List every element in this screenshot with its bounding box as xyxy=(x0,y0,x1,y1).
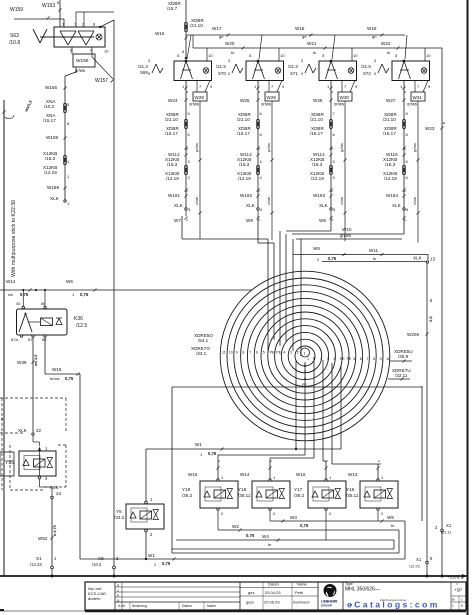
svg-text:Petri: Petri xyxy=(295,590,303,595)
svg-text:gn: gn xyxy=(372,34,376,39)
svg-text:W23: W23 xyxy=(425,126,435,131)
svg-text:W30: W30 xyxy=(340,95,350,100)
svg-text:10: 10 xyxy=(426,53,431,58)
svg-text:W21: W21 xyxy=(307,41,317,46)
svg-text:9: 9 xyxy=(236,351,238,355)
svg-text:X1: X1 xyxy=(36,556,42,561)
svg-text:/15.17: /15.17 xyxy=(383,131,396,136)
svg-text:gepr.: gepr. xyxy=(246,600,255,605)
svg-text:gn/ws: gn/ws xyxy=(195,143,199,152)
svg-text:XLK: XLK xyxy=(174,203,184,208)
svg-text:gn/ws: gn/ws xyxy=(340,233,351,238)
svg-text:3: 3 xyxy=(327,357,329,361)
svg-text:or/ws: or/ws xyxy=(195,197,199,205)
svg-text:XLK: XLK xyxy=(392,203,402,208)
svg-text:24: 24 xyxy=(56,491,62,496)
svg-text:W10: W10 xyxy=(342,227,352,232)
svg-text:9: 9 xyxy=(301,72,303,76)
svg-text:/21.11: /21.11 xyxy=(441,531,451,535)
svg-text:or/ws: or/ws xyxy=(267,197,271,205)
svg-text:Name: Name xyxy=(207,604,216,608)
svg-text:Bl.: Bl. xyxy=(452,598,456,602)
svg-text:W7: W7 xyxy=(174,218,181,223)
svg-text:br/ws: br/ws xyxy=(50,376,60,381)
svg-text:9: 9 xyxy=(380,357,382,361)
svg-text:/32.11: /32.11 xyxy=(395,373,408,378)
svg-text:Y55: Y55 xyxy=(5,460,14,466)
svg-text:GROUP: GROUP xyxy=(321,604,332,608)
svg-text:20.06.03: 20.06.03 xyxy=(264,600,280,605)
svg-text:8: 8 xyxy=(242,351,244,355)
svg-text:86: 86 xyxy=(41,301,46,306)
svg-text:W19: W19 xyxy=(367,26,377,31)
svg-text:X1: X1 xyxy=(446,523,452,528)
svg-text:/12.5: /12.5 xyxy=(76,323,87,329)
svg-text:/10.8: /10.8 xyxy=(9,40,20,46)
svg-text:11: 11 xyxy=(222,351,226,355)
svg-text:W6: W6 xyxy=(313,246,320,251)
svg-text:W2: W2 xyxy=(232,524,239,529)
svg-text:d: d xyxy=(117,584,119,588)
svg-text:XLK: XLK xyxy=(319,203,329,208)
svg-text:/35.2: /35.2 xyxy=(182,493,193,498)
svg-text:/21.5: /21.5 xyxy=(216,64,226,69)
svg-text:PE: PE xyxy=(276,351,281,355)
svg-text:3: 3 xyxy=(185,148,189,150)
svg-text:7: 7 xyxy=(249,351,251,355)
svg-text:/12.19: /12.19 xyxy=(44,170,57,175)
svg-text:/32.2: /32.2 xyxy=(114,515,125,520)
svg-text:/10.2: /10.2 xyxy=(92,562,102,567)
svg-text:W9: W9 xyxy=(246,218,253,223)
svg-text:W14: W14 xyxy=(6,279,16,284)
svg-text:gr/ws: gr/ws xyxy=(75,68,85,73)
svg-text:W3: W3 xyxy=(290,515,297,520)
svg-text:eCatalogs:com: eCatalogs:com xyxy=(347,600,440,610)
svg-text:W8: W8 xyxy=(319,218,326,223)
svg-text:ws: ws xyxy=(8,292,13,297)
svg-text:0,75: 0,75 xyxy=(328,256,337,261)
svg-text:Datum: Datum xyxy=(182,604,192,608)
svg-text:13: 13 xyxy=(430,257,436,262)
svg-text:W16: W16 xyxy=(155,31,165,36)
svg-text:or/ws: or/ws xyxy=(334,102,344,107)
svg-text:or/ws: or/ws xyxy=(340,197,344,205)
svg-text:9: 9 xyxy=(148,72,150,76)
svg-text:22: 22 xyxy=(36,428,42,433)
svg-text:W192: W192 xyxy=(240,193,252,198)
svg-text:10: 10 xyxy=(208,53,213,58)
svg-text:10: 10 xyxy=(280,53,285,58)
svg-text:5: 5 xyxy=(353,357,355,361)
svg-text:ändern: ändern xyxy=(88,596,101,601)
svg-text:/15.17: /15.17 xyxy=(237,131,250,136)
svg-text:/35.9: /35.9 xyxy=(398,354,409,359)
svg-text:W194: W194 xyxy=(386,193,398,198)
svg-text:W159: W159 xyxy=(10,7,23,13)
svg-text:10: 10 xyxy=(104,49,109,54)
svg-text:/15.3: /15.3 xyxy=(167,162,178,167)
svg-text:/15.3: /15.3 xyxy=(385,162,396,167)
svg-text:W13: W13 xyxy=(348,472,358,477)
svg-text:W24: W24 xyxy=(168,98,178,103)
svg-text:10: 10 xyxy=(353,53,358,58)
svg-text:9: 9 xyxy=(228,72,230,76)
svg-text:W155: W155 xyxy=(45,85,57,90)
svg-text:W20: W20 xyxy=(225,41,235,46)
svg-text:s: s xyxy=(185,219,189,221)
svg-text:W26: W26 xyxy=(313,98,323,103)
svg-text:/15.17: /15.17 xyxy=(165,131,178,136)
svg-text:0,75: 0,75 xyxy=(80,292,89,297)
svg-text:Y16: Y16 xyxy=(346,487,355,492)
svg-text:1: 1 xyxy=(304,352,306,356)
svg-text:K36: K36 xyxy=(74,316,83,322)
svg-text:4: 4 xyxy=(333,357,335,361)
svg-text:W189: W189 xyxy=(47,185,59,190)
svg-text:ws 2,5: ws 2,5 xyxy=(34,355,38,367)
svg-text:Kommerer: Kommerer xyxy=(293,601,311,605)
svg-text:/15.7: /15.7 xyxy=(167,6,178,11)
svg-text:2: 2 xyxy=(320,357,322,361)
svg-text:/35.11: /35.11 xyxy=(346,493,359,498)
svg-text:1: 1 xyxy=(461,598,463,602)
svg-text:or/ws: or/ws xyxy=(407,102,417,107)
svg-text:/12.23: /12.23 xyxy=(30,562,42,567)
svg-text:W14: W14 xyxy=(240,472,250,477)
svg-text:/10.2: /10.2 xyxy=(44,104,55,109)
svg-text:/12.23: /12.23 xyxy=(409,565,420,569)
svg-text:XLK: XLK xyxy=(18,428,28,433)
svg-text:s: s xyxy=(325,460,329,462)
svg-text:5: 5 xyxy=(263,351,265,355)
svg-text:0,75: 0,75 xyxy=(246,533,255,538)
svg-text:X8: X8 xyxy=(98,556,104,561)
svg-text:W6: W6 xyxy=(66,279,73,284)
svg-text:W22: W22 xyxy=(381,41,391,46)
svg-text:/12.19: /12.19 xyxy=(238,176,251,181)
svg-text:b: b xyxy=(330,91,334,93)
svg-text:6: 6 xyxy=(360,357,362,361)
svg-text:Änderung: Änderung xyxy=(132,604,147,608)
svg-text:or/ws: or/ws xyxy=(413,197,417,205)
svg-text:/15.3: /15.3 xyxy=(239,162,250,167)
svg-text:3: 3 xyxy=(403,148,407,150)
svg-text:87: 87 xyxy=(28,337,33,342)
svg-text:W39: W39 xyxy=(17,360,27,365)
svg-text:/12.19: /12.19 xyxy=(166,176,179,181)
svg-text:s: s xyxy=(185,190,189,192)
svg-text:PE: PE xyxy=(270,351,275,355)
svg-text:S69: S69 xyxy=(140,70,148,75)
svg-text:3: 3 xyxy=(301,59,303,63)
svg-text:3: 3 xyxy=(257,148,261,150)
svg-text:W27: W27 xyxy=(386,98,396,103)
svg-text:7: 7 xyxy=(366,357,368,361)
svg-text:W153: W153 xyxy=(42,3,55,9)
svg-text:s: s xyxy=(403,190,407,192)
svg-text:s: s xyxy=(257,190,261,192)
svg-text:0,75: 0,75 xyxy=(162,561,171,566)
svg-text:Y17: Y17 xyxy=(294,487,303,492)
svg-text:gn/ws: gn/ws xyxy=(413,143,417,152)
svg-text:bl: bl xyxy=(1,416,4,421)
svg-text:gez.: gez. xyxy=(248,590,256,595)
svg-text:XLK: XLK xyxy=(50,485,60,490)
svg-text:3: 3 xyxy=(330,148,334,150)
svg-text:+SP: +SP xyxy=(454,588,462,593)
svg-text:10: 10 xyxy=(386,357,390,361)
svg-text:W16: W16 xyxy=(296,472,306,477)
svg-text:W31: W31 xyxy=(413,95,423,100)
svg-text:S70: S70 xyxy=(218,71,226,76)
svg-text:MHL 350/626—: MHL 350/626— xyxy=(345,587,380,593)
svg-text:2: 2 xyxy=(297,351,299,355)
svg-text:ge: ge xyxy=(219,34,224,39)
svg-text:0,75: 0,75 xyxy=(208,451,217,456)
svg-text:XLK: XLK xyxy=(50,196,60,201)
svg-text:gn/ws: gn/ws xyxy=(267,143,271,152)
svg-text:/21.10: /21.10 xyxy=(383,117,396,122)
svg-text:/21.10: /21.10 xyxy=(190,23,203,28)
svg-text:b: b xyxy=(403,91,407,93)
svg-text:Type: Type xyxy=(345,582,353,586)
svg-text:S63: S63 xyxy=(10,33,19,39)
svg-text:gn/ws: gn/ws xyxy=(340,143,344,152)
svg-text:3: 3 xyxy=(290,351,292,355)
svg-text:s: s xyxy=(217,460,221,462)
svg-text:/35.11: /35.11 xyxy=(238,493,251,498)
svg-text:W157: W157 xyxy=(95,78,108,84)
svg-text:5: 5 xyxy=(461,604,463,608)
svg-text:3: 3 xyxy=(228,59,230,63)
svg-text:W1: W1 xyxy=(148,553,155,558)
svg-text:W4: W4 xyxy=(262,534,269,539)
svg-text:S71: S71 xyxy=(290,71,298,76)
svg-text:W193: W193 xyxy=(313,193,325,198)
svg-text:Name: Name xyxy=(297,583,307,587)
svg-text:+31/8.1: +31/8.1 xyxy=(447,575,463,581)
svg-text:or/ws: or/ws xyxy=(189,102,199,107)
svg-text:/15.17: /15.17 xyxy=(43,118,56,123)
svg-text:/21.10: /21.10 xyxy=(165,117,178,122)
svg-text:XLK: XLK xyxy=(246,203,256,208)
svg-text:/21.10: /21.10 xyxy=(237,117,250,122)
svg-text:W191: W191 xyxy=(168,193,180,198)
svg-text:W29: W29 xyxy=(267,95,277,100)
svg-text:0,75: 0,75 xyxy=(20,292,29,297)
svg-text:/33.1: /33.1 xyxy=(196,351,207,356)
svg-text:s: s xyxy=(330,190,334,192)
svg-text:b 0,75: b 0,75 xyxy=(53,525,57,536)
svg-text:6: 6 xyxy=(256,351,258,355)
svg-text:PE: PE xyxy=(347,357,352,361)
svg-text:3: 3 xyxy=(374,59,376,63)
svg-text:S72: S72 xyxy=(363,71,371,76)
svg-text:/21.3: /21.3 xyxy=(288,64,298,69)
svg-text:ge: ge xyxy=(302,34,307,39)
svg-text:/12.19: /12.19 xyxy=(384,176,397,181)
svg-text:W28: W28 xyxy=(195,95,205,100)
svg-text:8: 8 xyxy=(373,357,375,361)
svg-text:1: 1 xyxy=(307,357,309,361)
svg-text:9: 9 xyxy=(374,72,376,76)
svg-text:Y18: Y18 xyxy=(238,487,247,492)
svg-text:A-Nr: A-Nr xyxy=(118,604,126,608)
svg-text:/21.5: /21.5 xyxy=(361,64,371,69)
svg-text:30: 30 xyxy=(16,301,21,306)
svg-text:s: s xyxy=(269,460,273,462)
svg-text:PE: PE xyxy=(340,357,345,361)
svg-text:W52: W52 xyxy=(38,536,48,541)
svg-text:With multipurpose stick to K22: With multipurpose stick to K22:30 xyxy=(11,200,17,277)
svg-text:b: b xyxy=(442,122,446,124)
svg-text:/12.19: /12.19 xyxy=(311,176,324,181)
svg-text:/54.1: /54.1 xyxy=(198,338,209,343)
svg-text:Y5: Y5 xyxy=(116,509,122,514)
svg-text:W18: W18 xyxy=(295,26,305,31)
svg-text:c: c xyxy=(117,589,119,593)
svg-text:Y19: Y19 xyxy=(182,487,191,492)
svg-text:/15.3: /15.3 xyxy=(45,156,56,161)
svg-text:0,75: 0,75 xyxy=(65,376,74,381)
svg-text:87a: 87a xyxy=(11,337,18,342)
svg-text:4: 4 xyxy=(283,351,285,355)
svg-text:W25: W25 xyxy=(240,98,250,103)
svg-text:W5: W5 xyxy=(387,515,394,520)
svg-text:W206: W206 xyxy=(407,332,419,337)
svg-text:/15.3: /15.3 xyxy=(312,162,323,167)
svg-text:2,5: 2,5 xyxy=(428,316,433,322)
svg-text:W1: W1 xyxy=(195,442,202,447)
svg-text:1: 1 xyxy=(452,604,454,608)
svg-text:b: b xyxy=(117,594,119,598)
svg-text:W108: W108 xyxy=(46,135,58,140)
svg-text:b: b xyxy=(257,91,261,93)
svg-text:W15: W15 xyxy=(52,367,62,372)
svg-text:/21.10: /21.10 xyxy=(310,117,323,122)
svg-text:/35.2: /35.2 xyxy=(294,493,305,498)
svg-text:03.04.03: 03.04.03 xyxy=(265,590,281,595)
svg-text:b: b xyxy=(185,91,189,93)
svg-text:W11: W11 xyxy=(369,248,379,253)
svg-text:W15: W15 xyxy=(188,472,198,477)
svg-text:Datum: Datum xyxy=(268,583,279,587)
svg-text:/15.17: /15.17 xyxy=(310,131,323,136)
svg-text:or/ws: or/ws xyxy=(261,102,271,107)
svg-text:3: 3 xyxy=(148,59,150,63)
svg-text:W17: W17 xyxy=(212,26,222,31)
svg-text:10: 10 xyxy=(229,351,233,355)
svg-text:XLK: XLK xyxy=(413,256,423,261)
svg-text:W156: W156 xyxy=(76,58,89,64)
svg-text:/21.3: /21.3 xyxy=(138,64,148,69)
svg-text:s: s xyxy=(377,460,381,462)
svg-text:X1: X1 xyxy=(416,557,422,562)
svg-text:0,75: 0,75 xyxy=(300,523,309,528)
